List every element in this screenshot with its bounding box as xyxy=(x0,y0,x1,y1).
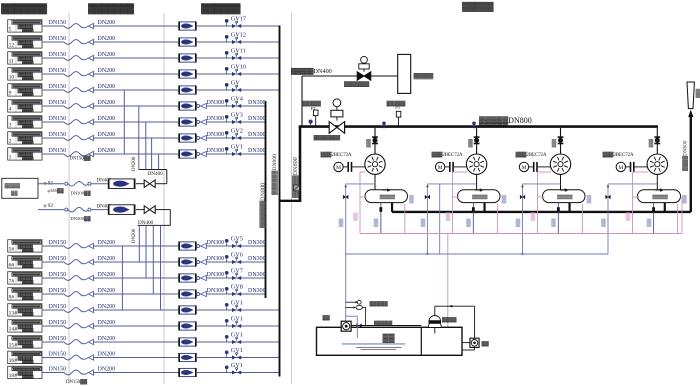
wire down to hose line 1 xyxy=(166,170,168,184)
instrument tap xyxy=(226,134,228,138)
test-section source box 13# xyxy=(8,304,42,316)
instrument tap xyxy=(226,38,228,42)
separator exhaust drop unit 4 xyxy=(664,203,666,212)
svg-text:φ 92: φ 92 xyxy=(44,203,54,209)
wire drop to GV8 line xyxy=(152,225,154,294)
test-section source box 7# xyxy=(8,272,42,284)
svg-text:DN150: DN150 xyxy=(49,336,67,342)
instrument tap xyxy=(226,322,228,326)
svg-text:DN200: DN200 xyxy=(98,52,116,58)
flow meter xyxy=(180,54,196,62)
svg-text:▓▓▓▓: ▓▓▓▓ xyxy=(442,316,457,323)
valve GV5 xyxy=(236,241,238,243)
flow meter xyxy=(180,70,196,78)
motor unit 4 xyxy=(616,162,625,171)
flexible hose DN150/DN200 xyxy=(64,120,89,125)
svg-text:▓▓▓2BEC72A: ▓▓▓2BEC72A xyxy=(321,151,352,158)
flexible hose DN150/DN200 xyxy=(64,24,89,29)
svg-text:▓▓▓▓▓: ▓▓▓▓▓ xyxy=(22,312,34,317)
flexible hose DN150/DN200 xyxy=(64,104,89,109)
instrument tap xyxy=(226,86,228,90)
instrument tap xyxy=(226,22,228,26)
svg-text:GV11: GV11 xyxy=(231,47,246,54)
svg-text:DN150: DN150 xyxy=(49,68,67,74)
svg-text:DN200: DN200 xyxy=(98,36,116,42)
svg-text:DN150: DN150 xyxy=(49,272,67,278)
water supply line unit 3 xyxy=(522,184,524,254)
separator exhaust drop unit 2 xyxy=(483,203,485,212)
svg-text:DN150▓▓: DN150▓▓ xyxy=(66,378,88,385)
svg-text:3: 3 xyxy=(9,123,12,129)
butterfly valve DN400 xyxy=(144,206,150,214)
svg-text:DN200: DN200 xyxy=(98,352,116,358)
svg-text:GV8: GV8 xyxy=(231,283,243,290)
pressure transmitter 1 xyxy=(313,110,318,116)
wire down from hose line 2 xyxy=(169,210,171,226)
svg-text:M: M xyxy=(438,165,443,171)
make-up air branch DN400 xyxy=(301,76,303,127)
manifold DN400 upper xyxy=(139,169,167,171)
svg-text:▓▓: ▓▓ xyxy=(383,333,396,343)
flow meter DN400 xyxy=(109,179,134,189)
wire DN150 line y=310 xyxy=(42,309,64,311)
instrument tap xyxy=(226,242,228,246)
unit4 extra overflow riser xyxy=(681,196,683,198)
wire drop to GV6 line xyxy=(138,225,140,262)
flow meter xyxy=(180,274,196,282)
svg-text:DN300: DN300 xyxy=(207,240,225,246)
separator unit 2 xyxy=(458,190,501,203)
svg-text:▓▓▓▓▓: ▓▓▓▓▓ xyxy=(22,108,34,113)
test-section source box 16# xyxy=(8,351,42,363)
svg-text:▓▓▓: ▓▓▓ xyxy=(695,88,700,98)
svg-text:DN300: DN300 xyxy=(207,272,225,278)
separator unit 1 xyxy=(365,190,408,203)
pump to separator unit 1 xyxy=(374,174,376,189)
svg-text:18#: 18# xyxy=(9,373,18,379)
test-section source box 3 xyxy=(8,116,42,128)
separator unit 3 xyxy=(543,190,586,203)
reducer DN200/DN300 xyxy=(197,137,200,140)
wire crossover line5 to line9 xyxy=(123,90,125,154)
svg-text:▓▓▓▓▓▓▓▓: ▓▓▓▓▓▓▓▓ xyxy=(314,134,341,141)
separator exhaust drop unit 1 xyxy=(391,203,393,212)
overflow drop pink unit 1 xyxy=(404,204,406,234)
svg-text:DN150: DN150 xyxy=(49,320,67,326)
svg-text:▓▓: ▓▓ xyxy=(323,314,331,321)
instrument tap xyxy=(226,118,228,122)
svg-text:DN200: DN200 xyxy=(98,320,116,326)
muffler arrow xyxy=(688,110,693,117)
check valve unit 3 xyxy=(558,136,564,138)
valve GV1 xyxy=(236,149,238,151)
overflow drop pink unit 4 xyxy=(677,204,679,234)
svg-text:DN150: DN150 xyxy=(49,36,67,42)
wire DN150 line y=122 xyxy=(42,121,64,123)
svg-text:▓▓▓▓▓: ▓▓▓▓▓ xyxy=(22,264,34,269)
pink return manifold xyxy=(360,233,682,235)
svg-text:▓▓▓▓▓: ▓▓▓▓▓ xyxy=(22,28,34,33)
separator exhaust drop unit 3 xyxy=(568,203,570,212)
wire DN150 line y=90 xyxy=(42,89,64,91)
test-section source box 5# xyxy=(8,240,42,252)
svg-text:▓▓▓▓▓: ▓▓▓▓▓ xyxy=(374,320,393,327)
check valve unit 2 xyxy=(474,136,480,138)
wire DN150 line y=357.5 xyxy=(42,357,64,359)
air intake filter xyxy=(398,54,411,93)
svg-text:DN200: DN200 xyxy=(98,148,116,154)
wire DN150 line y=42 xyxy=(42,41,64,43)
svg-text:GV4: GV4 xyxy=(231,95,243,102)
reducer DN200/DN300 xyxy=(197,277,200,280)
riser from main pipe unit 3 xyxy=(560,128,562,154)
flow meter xyxy=(180,368,196,376)
svg-text:▓▓▓▓▓: ▓▓▓▓▓ xyxy=(22,76,34,81)
exhaust manifold DN800 xyxy=(392,211,691,213)
flexible hose DN150/DN200 xyxy=(64,370,89,375)
pump to separator unit 3 xyxy=(560,174,562,189)
reducer DN200/DN300 xyxy=(197,293,200,296)
instrument tap xyxy=(226,258,228,262)
main suction pipe elbow xyxy=(279,200,302,202)
svg-text:14#: 14# xyxy=(9,327,18,333)
svg-text:DN300: DN300 xyxy=(207,132,225,138)
instrument tap xyxy=(226,306,228,310)
wire drop to line 310 xyxy=(160,225,162,310)
reducer DN200/DN300 xyxy=(197,105,200,108)
svg-text:GV1: GV1 xyxy=(231,331,243,338)
svg-text:▓▓▓2BEC72A: ▓▓▓2BEC72A xyxy=(432,151,463,158)
svg-text:DN200: DN200 xyxy=(98,84,116,90)
svg-text:DN300: DN300 xyxy=(248,100,266,106)
svg-text:GV: GV xyxy=(231,79,240,86)
svg-text:▓▓▓▓▓DN800: ▓▓▓▓▓DN800 xyxy=(479,116,532,126)
reducer DN200/DN300 xyxy=(197,121,200,124)
svg-text:▓▓▓▓▓DN400: ▓▓▓▓▓DN400 xyxy=(291,68,332,75)
instrument tap xyxy=(226,338,228,342)
wire DN150 line y=342 xyxy=(42,341,64,343)
svg-text:DN200: DN200 xyxy=(98,256,116,262)
svg-text:DN300: DN300 xyxy=(207,116,225,122)
svg-text:DN150▓▓: DN150▓▓ xyxy=(70,155,92,162)
test-section source box 6# xyxy=(8,256,42,268)
flexible hose DN150/DN200 xyxy=(64,152,89,157)
flexible hose DN150/DN200 xyxy=(64,340,89,345)
water surface lines xyxy=(342,343,406,345)
svg-text:DN400: DN400 xyxy=(138,220,154,226)
svg-text:GV1: GV1 xyxy=(231,315,243,322)
svg-text:7#: 7# xyxy=(9,279,15,285)
coupling unit 2 xyxy=(449,162,451,172)
valve GV12 xyxy=(236,37,238,39)
tap dot on pipe 1 xyxy=(383,125,385,129)
cooling tower loop xyxy=(434,306,436,315)
svg-text:DN150: DN150 xyxy=(49,116,67,122)
svg-text:5#: 5# xyxy=(9,247,15,253)
svg-text:▓▓: ▓▓ xyxy=(482,340,490,347)
reducer DN200/DN300 xyxy=(197,261,200,264)
pool divider xyxy=(420,327,422,355)
svg-text:6#: 6# xyxy=(9,263,15,269)
svg-text:▓▓▓▓▓: ▓▓▓▓▓ xyxy=(22,374,34,379)
svg-text:DN150: DN150 xyxy=(49,132,67,138)
hose line DN400 no.1 xyxy=(38,183,64,185)
svg-text:▓▓▓▓▓▓▓: ▓▓▓▓▓▓▓ xyxy=(88,3,134,14)
riser from main pipe unit 1 xyxy=(374,128,376,154)
svg-text:GV2: GV2 xyxy=(231,127,243,134)
riser from main pipe unit 2 xyxy=(476,128,478,154)
flow meter xyxy=(180,86,196,94)
valve GV6 xyxy=(236,257,238,259)
svg-text:DN150: DN150 xyxy=(49,256,67,262)
svg-text:16#: 16# xyxy=(9,358,18,364)
svg-text:▓▓▓▓▓DN800: ▓▓▓▓▓DN800 xyxy=(292,157,299,198)
separator arrow unit 4 xyxy=(655,189,660,191)
supply valve unit 3 xyxy=(520,195,523,200)
flow meter xyxy=(180,258,196,266)
cooling tower xyxy=(429,316,440,321)
svg-text:DN150: DN150 xyxy=(49,84,67,90)
water supply line unit 1 xyxy=(345,184,347,321)
separator arrow unit 1 xyxy=(382,189,387,191)
svg-text:▓▓▓▓▓: ▓▓▓▓▓ xyxy=(22,60,34,65)
svg-text:▓▓▓▓▓▓▓: ▓▓▓▓▓▓▓ xyxy=(1,3,47,14)
svg-text:GV6: GV6 xyxy=(231,251,243,258)
return line pink unit 4 xyxy=(633,171,648,173)
instrument blue dot on pipe xyxy=(310,123,312,126)
svg-text:5: 5 xyxy=(9,27,12,33)
flow meter xyxy=(180,102,196,110)
vacuum drop unit 4 xyxy=(653,203,655,234)
hose line DN400 no.2 xyxy=(38,209,64,211)
wire DN150 line y=294 xyxy=(42,293,64,295)
valve GV1 xyxy=(236,305,238,307)
wire drop from line7 xyxy=(145,122,147,170)
valve GV xyxy=(236,85,238,87)
svg-text:DN200: DN200 xyxy=(98,100,116,106)
svg-text:DN150: DN150 xyxy=(49,352,67,358)
water supply line unit 4 xyxy=(607,184,609,254)
flow meter xyxy=(180,134,196,142)
flexible hose DN150/DN200 xyxy=(64,40,89,45)
coupling unit 4 xyxy=(630,162,632,172)
test-section source box 4 xyxy=(8,100,42,112)
svg-text:▓▓▓2BEC72A: ▓▓▓2BEC72A xyxy=(516,151,547,158)
svg-text:10: 10 xyxy=(9,75,15,81)
svg-text:DN200: DN200 xyxy=(98,304,116,310)
wire DN150 line y=58 xyxy=(42,57,64,59)
flow meter xyxy=(180,150,196,158)
svg-text:▓▓▓▓▓▓▓: ▓▓▓▓▓▓▓ xyxy=(344,81,369,88)
wire DN150 line y=262 xyxy=(42,261,64,263)
svg-text:M: M xyxy=(336,165,341,171)
svg-text:DN200: DN200 xyxy=(132,156,137,171)
svg-text:M: M xyxy=(522,165,527,171)
wire DN150 line y=106 xyxy=(42,105,64,107)
butterfly valve DN400 xyxy=(144,180,150,188)
riser from main pipe unit 4 xyxy=(656,128,658,154)
pump suction loop xyxy=(346,315,358,317)
svg-text:GV1: GV1 xyxy=(231,347,243,354)
motor unit 1 xyxy=(334,162,343,171)
water pressure control valve line xyxy=(351,325,421,327)
muffler xyxy=(687,82,694,109)
instrument tap xyxy=(226,354,228,358)
test-section source box 18# xyxy=(8,366,42,378)
svg-text:DN150: DN150 xyxy=(49,240,67,246)
flow meter xyxy=(180,306,196,314)
svg-text:DN300: DN300 xyxy=(248,116,266,122)
flexible hose DN150/DN200 xyxy=(64,72,89,77)
instrument tap xyxy=(226,290,228,294)
svg-text:DN150: DN150 xyxy=(49,288,67,294)
svg-text:1: 1 xyxy=(9,155,12,161)
instrument tap xyxy=(226,102,228,106)
flow meter xyxy=(180,353,196,361)
test-section source box 15# xyxy=(8,336,42,348)
pump right connections xyxy=(462,342,471,344)
tap dot on pipe 2 xyxy=(473,125,475,129)
svg-text:GV1: GV1 xyxy=(231,362,243,369)
svg-text:DN300: DN300 xyxy=(248,288,266,294)
svg-text:▓▓▓▓▓: ▓▓▓▓▓ xyxy=(22,248,34,253)
svg-text:DN300: DN300 xyxy=(248,148,266,154)
flow meter xyxy=(180,22,196,30)
flexible hose DN150/DN200 xyxy=(64,355,89,360)
wire DN150 line y=326 xyxy=(42,325,64,327)
supply valve unit 2 xyxy=(425,195,428,200)
intake test model box xyxy=(2,178,38,198)
svg-text:GV1: GV1 xyxy=(231,299,243,306)
flow meter xyxy=(180,338,196,346)
water ring pump unit 3 xyxy=(550,154,570,174)
svg-text:DN400: DN400 xyxy=(148,171,164,177)
svg-text:DN200: DN200 xyxy=(98,367,116,373)
svg-text:▓▓▓▓▓: ▓▓▓▓▓ xyxy=(22,92,34,97)
pump to separator unit 2 xyxy=(476,174,478,189)
svg-text:GV3: GV3 xyxy=(231,111,243,118)
blue supply manifold xyxy=(346,253,608,255)
flow meter xyxy=(180,290,196,298)
svg-text:▓▓▓▓▓▓DN800: ▓▓▓▓▓▓DN800 xyxy=(260,183,267,228)
svg-text:DN300: DN300 xyxy=(248,240,266,246)
motor unit 3 xyxy=(519,162,528,171)
svg-text:9: 9 xyxy=(9,91,12,97)
svg-text:DN200: DN200 xyxy=(98,240,116,246)
water supply line unit 2 xyxy=(426,184,428,254)
svg-text:DN150: DN150 xyxy=(49,100,67,106)
svg-text:▓▓▓▓▓: ▓▓▓▓▓ xyxy=(22,359,34,364)
flexible hose DN150/DN200 xyxy=(64,88,89,93)
wire drop to GV7 line xyxy=(145,225,147,278)
instrument tap xyxy=(226,369,228,373)
svg-text:13#: 13# xyxy=(9,311,18,317)
valve GV2 xyxy=(236,133,238,135)
svg-text:DN300: DN300 xyxy=(207,148,225,154)
return line pink unit 2 xyxy=(453,171,468,173)
wall building boundary 3 xyxy=(291,13,293,384)
svg-text:11: 11 xyxy=(9,59,15,65)
exhaust riser DN800 xyxy=(690,117,692,212)
supply valve unit 4 xyxy=(605,195,608,200)
reducer DN200/DN300 xyxy=(197,153,200,156)
valve GV1 xyxy=(236,321,238,323)
svg-text:DN200: DN200 xyxy=(132,228,137,243)
flexible hose DN150/DN200 xyxy=(64,292,89,297)
svg-text:DN200: DN200 xyxy=(98,288,116,294)
svg-text:DN300: DN300 xyxy=(248,272,266,278)
test-section source box 8# xyxy=(8,288,42,300)
front valve-group manifold DN800 xyxy=(265,101,267,298)
instrument tap xyxy=(226,70,228,74)
flexible hose DN150/DN200 xyxy=(64,244,89,249)
test-section source box 2 xyxy=(8,132,42,144)
valve GV11 xyxy=(236,53,238,55)
wall building boundary 2 xyxy=(163,13,165,384)
return line pink unit 3 xyxy=(538,171,552,173)
pressure transmitter 2 xyxy=(396,111,401,117)
svg-text:GV1: GV1 xyxy=(231,143,243,150)
pool water pump right xyxy=(470,338,479,347)
wire drop from line6 xyxy=(138,106,140,170)
svg-text:DN300: DN300 xyxy=(248,132,266,138)
svg-text:GV7: GV7 xyxy=(231,267,243,274)
wire DN150 line y=138 xyxy=(42,137,64,139)
svg-text:DN300: DN300 xyxy=(248,256,266,262)
flexible hose DN150/DN200 xyxy=(64,136,89,141)
valve GV17 xyxy=(236,21,238,23)
instrument tap xyxy=(226,274,228,278)
separator arrow unit 3 xyxy=(560,189,565,191)
motor unit 2 xyxy=(435,162,444,171)
separator arrow unit 2 xyxy=(475,189,480,191)
main pipe electric control valve xyxy=(333,99,341,107)
svg-text:12: 12 xyxy=(9,43,15,49)
wire drop from line9 xyxy=(158,154,160,170)
svg-text:DN150: DN150 xyxy=(49,20,67,26)
test-section source box 9 xyxy=(8,84,42,96)
svg-text:DN200: DN200 xyxy=(98,20,116,26)
flow meter DN400 xyxy=(109,205,134,215)
svg-text:▓▓▓▓▓: ▓▓▓▓▓ xyxy=(370,300,389,307)
wire DN150 line y=278 xyxy=(42,277,64,279)
svg-text:▓▓▓▓▓: ▓▓▓▓▓ xyxy=(22,328,34,333)
wire DN150 line y=74 xyxy=(42,73,64,75)
coupling unit 1 xyxy=(347,162,349,172)
svg-text:▓▓▓▓▓▓DN800: ▓▓▓▓▓▓DN800 xyxy=(271,154,278,195)
svg-text:DN200: DN200 xyxy=(98,68,116,74)
instrument hatched box xyxy=(293,185,299,191)
svg-text:M: M xyxy=(618,165,623,171)
overflow drop pink unit 2 xyxy=(496,204,498,234)
valve GV1 xyxy=(236,367,238,369)
wire DN150 line y=26 xyxy=(42,25,64,27)
svg-text:DN200: DN200 xyxy=(98,272,116,278)
svg-text:GV17: GV17 xyxy=(231,15,246,22)
svg-text:DN200: DN200 xyxy=(98,336,116,342)
valve GV8 xyxy=(236,289,238,291)
wire DN150 line y=246 xyxy=(42,245,64,247)
svg-text:▓▓▓▓▓: ▓▓▓▓▓ xyxy=(414,73,434,80)
rear valve-group manifold DN800 xyxy=(279,26,281,377)
water pool xyxy=(317,327,463,355)
wire crossover GV5 to line 310 xyxy=(121,246,123,310)
wire DN150 line y=372.5 xyxy=(42,372,64,374)
wire DN150 line y=154 xyxy=(42,153,64,155)
valve GV7 xyxy=(236,273,238,275)
manifold DN400 lower xyxy=(138,224,171,226)
pump to separator unit 4 xyxy=(656,174,658,189)
